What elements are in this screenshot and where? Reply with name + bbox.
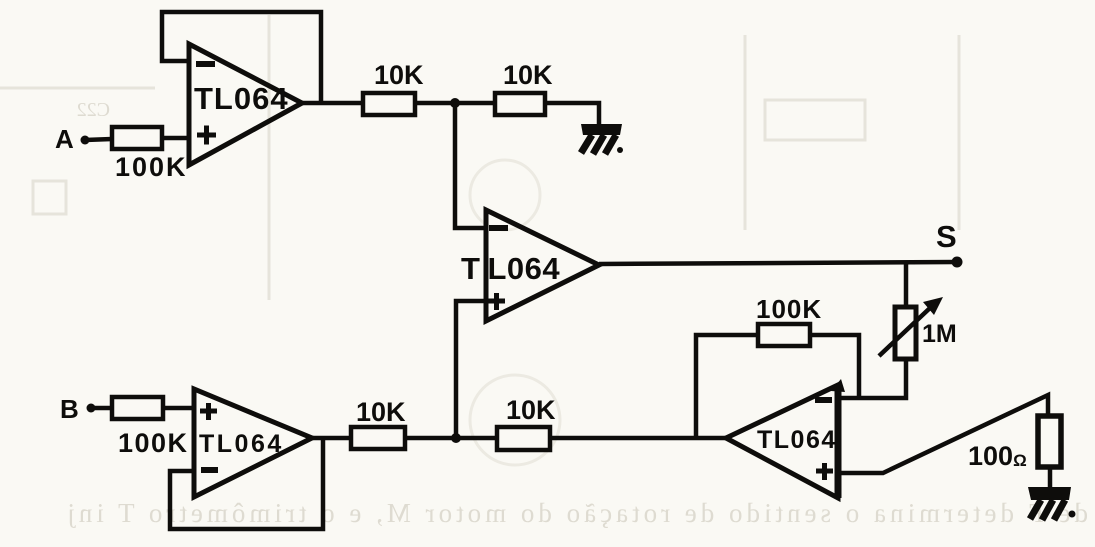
svg-text:de F determina o sentido de ro: de F determina o sentido de rotação do m… <box>63 498 1088 528</box>
resistor R1 100K <box>112 127 162 149</box>
svg-text:100K: 100K <box>115 152 188 182</box>
wire R3 to ground <box>544 103 599 126</box>
svg-text:S: S <box>936 219 957 254</box>
wire R6 to ground <box>1048 467 1053 488</box>
resistor R7 10K <box>351 427 405 449</box>
svg-text:TL064: TL064 <box>461 251 560 286</box>
svg-text:100K: 100K <box>756 294 822 324</box>
op-amp U1 TL064 (top-left) <box>189 44 302 165</box>
resistor R4 100K feedback <box>696 294 859 436</box>
U3 feedback wire loop <box>170 438 323 529</box>
node X junction <box>450 98 460 108</box>
potentiometer P1 1M <box>879 297 957 359</box>
U1 feedback wire loop <box>162 12 321 103</box>
U4 plus input sign <box>816 463 833 480</box>
ground symbol G1 <box>581 124 623 154</box>
U4 inverting-input corner arrow <box>831 379 845 392</box>
U3 minus input sign <box>201 467 218 473</box>
wire R5 to U3 + input <box>163 406 194 411</box>
svg-text:10K: 10K <box>356 397 406 427</box>
svg-text:TL064: TL064 <box>757 426 837 454</box>
resistor R3 10K <box>495 93 545 115</box>
U2 plus input sign <box>488 293 505 310</box>
wire S rail down to P1 <box>904 263 909 307</box>
wire R2 to node X <box>416 101 494 106</box>
op-amp U4 TL064 (bottom-right, mirrored) <box>726 385 838 498</box>
svg-text:10K: 10K <box>506 395 556 425</box>
resistor R2 10K <box>363 93 415 115</box>
svg-text:A: A <box>55 124 74 154</box>
op-amp U2 TL064 (middle) <box>486 210 599 321</box>
wire A to R1 <box>85 139 112 140</box>
resistor R5 100K <box>112 397 163 419</box>
svg-text:C22: C22 <box>77 99 110 121</box>
svg-text:1M: 1M <box>922 320 957 348</box>
U1 minus input sign <box>196 61 215 67</box>
ground symbol G2 <box>1028 487 1076 520</box>
U3 plus input sign <box>200 403 217 420</box>
wire U2 plus input from node Y <box>456 301 486 438</box>
wire P1 to U4 inverting input <box>838 358 906 398</box>
ghost bleed-through marks <box>0 15 959 465</box>
wire U3 output <box>312 436 351 441</box>
resistor R8 10K <box>497 427 550 450</box>
svg-text:B: B <box>60 394 79 424</box>
wire R1 to U1 + input <box>162 136 189 141</box>
op-amp U3 TL064 (bottom-left) <box>194 389 312 497</box>
wire R7 to node Y <box>405 436 497 441</box>
node Y junction <box>451 433 461 443</box>
wire R8 to U4 output <box>550 436 726 441</box>
wire U2 output to S <box>599 262 957 264</box>
svg-text:TL064: TL064 <box>194 81 289 116</box>
svg-text:10K: 10K <box>374 60 424 90</box>
U2 minus input sign <box>489 225 508 231</box>
svg-text:10K: 10K <box>503 60 553 90</box>
resistor R6 100R <box>1038 416 1061 467</box>
wire B to R5 <box>91 406 112 411</box>
wire U4 plus to R6 <box>838 395 1048 473</box>
U1 plus input sign <box>197 126 216 145</box>
U4 minus input sign <box>815 397 832 403</box>
svg-text:100K: 100K <box>118 428 189 458</box>
wire node X down to U2 inverting input <box>455 103 486 228</box>
svg-text:TL064: TL064 <box>199 430 284 458</box>
wire U1 output <box>302 101 364 106</box>
